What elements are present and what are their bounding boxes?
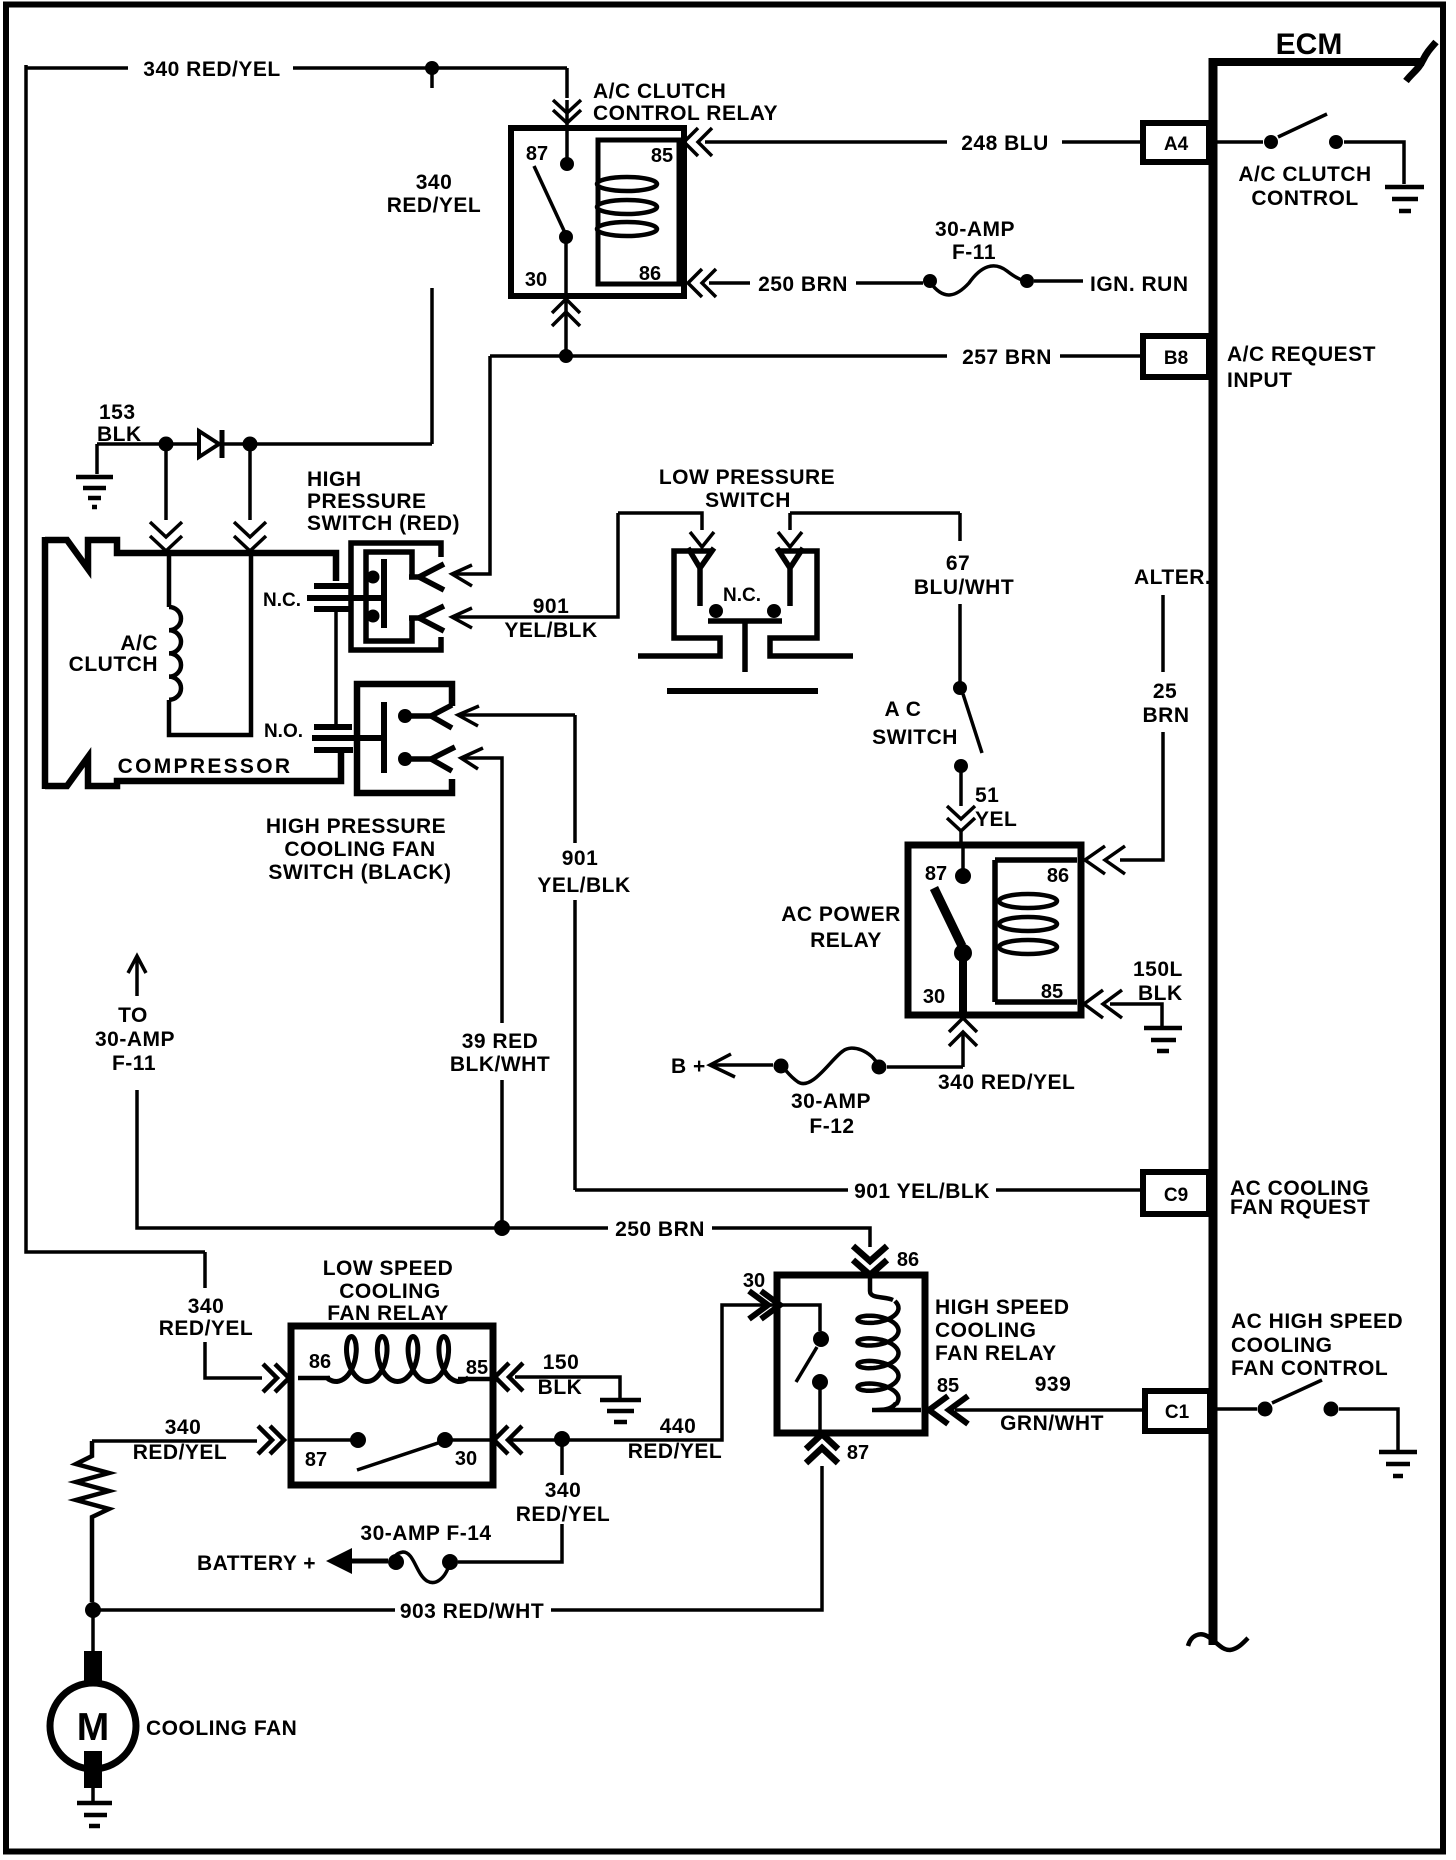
svg-text:BLK: BLK [97, 423, 142, 446]
red switch inner bracket [366, 552, 412, 641]
relay K1 coil loops [597, 177, 657, 236]
svg-text:86: 86 [309, 1351, 331, 1373]
svg-text:COOLING FAN: COOLING FAN [284, 838, 435, 861]
svg-text:901: 901 [562, 847, 599, 870]
svg-text:340: 340 [165, 1416, 202, 1439]
svg-text:ALTER.: ALTER. [1134, 566, 1211, 589]
svg-text:PRESSURE: PRESSURE [307, 490, 427, 513]
A/C clutch coil [169, 553, 251, 735]
chevrons at relay 86 (250 BRN) [688, 269, 716, 297]
svg-text:BLK/WHT: BLK/WHT [450, 1053, 550, 1076]
svg-text:FAN RQUEST: FAN RQUEST [1230, 1196, 1370, 1219]
wire 901 YEL/BLK (to low pressure switch) [452, 513, 618, 617]
chevrons at relay 30 (to 257 BRN) [552, 299, 580, 356]
svg-text:F-12: F-12 [809, 1115, 854, 1138]
wire 67 BLU/WHT [958, 513, 962, 682]
svg-text:C9: C9 [1164, 1185, 1188, 1206]
chevrons below relay K2 pin 30 [949, 1018, 977, 1067]
svg-text:RED/YEL: RED/YEL [628, 1440, 723, 1463]
chevrons into K3 86 [263, 1364, 289, 1392]
svg-text:CONTROL: CONTROL [1251, 187, 1358, 210]
wire 901 YEL/BLK from black switch upper contact [458, 713, 575, 717]
wire 250 BRN (bottom) [137, 1090, 608, 1228]
svg-text:SWITCH: SWITCH [705, 489, 791, 512]
svg-text:LOW PRESSURE: LOW PRESSURE [659, 466, 835, 489]
ground (A/C clutch control) [1385, 187, 1424, 211]
svg-text:COOLING FAN: COOLING FAN [146, 1717, 297, 1740]
svg-text:A C: A C [885, 698, 922, 721]
svg-text:30-AMP F-14: 30-AMP F-14 [360, 1522, 491, 1545]
svg-text:RED/YEL: RED/YEL [516, 1503, 611, 1526]
connector A4 [1143, 123, 1209, 162]
relay K2 coil box [995, 860, 1077, 1002]
svg-text:N.O.: N.O. [264, 721, 303, 742]
connector B8 [1143, 336, 1209, 377]
connector C1 [1145, 1391, 1210, 1431]
svg-text:AC HIGH SPEED: AC HIGH SPEED [1231, 1310, 1403, 1333]
ground (fan control) [1379, 1452, 1417, 1476]
svg-text:30-AMP: 30-AMP [95, 1028, 175, 1051]
wire down to compressor (right) with chevrons [234, 444, 266, 551]
ECM bottom break squiggle [1188, 1634, 1248, 1650]
relay K1 coil box [598, 140, 679, 284]
low pressure switch bottom bar [667, 688, 818, 694]
svg-text:340 RED/YEL: 340 RED/YEL [143, 58, 280, 81]
ground (150L BLK) [1144, 1028, 1182, 1051]
wire 340 RED/YEL into K3 86 [205, 1252, 262, 1378]
svg-text:CONTROL RELAY: CONTROL RELAY [593, 102, 778, 125]
svg-text:BLK: BLK [538, 1376, 583, 1399]
svg-text:N.C.: N.C. [263, 590, 301, 611]
junction 440/340 [554, 1431, 570, 1447]
svg-text:A/C CLUTCH: A/C CLUTCH [1238, 163, 1371, 186]
svg-text:SWITCH (BLACK): SWITCH (BLACK) [268, 861, 451, 884]
ECM top break squiggle [1406, 42, 1436, 81]
arrowhead (upper, black switch) [458, 706, 479, 726]
wire drop to high pressure switch [452, 356, 490, 574]
relay K1 pin 30 wire [564, 237, 568, 296]
relay K4 switch contacts [778, 1305, 829, 1433]
svg-text:HIGH SPEED: HIGH SPEED [935, 1296, 1070, 1319]
svg-text:30: 30 [923, 986, 945, 1008]
svg-text:YEL/BLK: YEL/BLK [504, 619, 597, 642]
wire left vertical 340 RED/YEL [26, 65, 205, 1252]
wire from N.C. lower plate down to black switch [334, 609, 338, 724]
compressor outline [45, 537, 341, 789]
svg-text:86: 86 [897, 1249, 919, 1271]
svg-text:BRN: BRN [1143, 704, 1190, 727]
black switch lower fork contact [405, 747, 455, 771]
high speed cooling fan relay K4 box [777, 1275, 925, 1433]
wire 248 BLU [705, 140, 947, 144]
wire 150L BLK at relay K2 pin 85 [1084, 990, 1162, 1026]
relay K1 switch blade [534, 166, 566, 235]
svg-text:BLK: BLK [1138, 982, 1183, 1005]
relay K2 box [908, 845, 1081, 1015]
wire to IGN. RUN [1034, 279, 1083, 283]
fuse F-12 [774, 1048, 887, 1083]
svg-text:YEL/BLK: YEL/BLK [537, 874, 630, 897]
arrowhead into red switch (lower) [452, 608, 472, 628]
svg-text:25: 25 [1153, 680, 1177, 703]
svg-text:COOLING: COOLING [339, 1280, 441, 1303]
svg-text:INPUT: INPUT [1227, 369, 1293, 392]
svg-text:85: 85 [466, 1357, 488, 1379]
wire 153 BLK horizontal [97, 442, 432, 446]
junction 257 BRN [559, 349, 573, 363]
svg-text:AC POWER: AC POWER [781, 903, 901, 926]
chevrons into K4 86 (bold) [853, 1246, 887, 1275]
svg-text:RED/YEL: RED/YEL [387, 194, 482, 217]
wire 901 YEL/BLK vertical to C9 [573, 715, 577, 1190]
svg-text:30: 30 [743, 1270, 765, 1292]
black switch bracket [357, 684, 452, 793]
wire top right (67 BLU/WHT side) [790, 511, 960, 515]
svg-text:COOLING: COOLING [1231, 1334, 1333, 1357]
chevrons into AC power relay 87 [947, 806, 975, 845]
svg-text:901: 901 [533, 595, 570, 618]
svg-text:85: 85 [1041, 981, 1063, 1003]
low speed cooling fan relay K3 box [291, 1326, 493, 1485]
svg-text:30: 30 [525, 269, 547, 291]
relay K1 box [511, 128, 684, 296]
wire 440 RED/YEL [508, 1305, 778, 1440]
wire 340 RED/YEL mid vertical [430, 68, 434, 444]
arrowhead down (right) [778, 532, 802, 547]
relay K2 switch blade [934, 888, 962, 946]
wire 25 BRN (from alternator) [1120, 595, 1163, 860]
red switch upper fork contact [409, 564, 444, 590]
junction 903 [85, 1602, 101, 1618]
A/C clutch control relay K1 [511, 128, 684, 296]
resistor R1 [76, 1441, 109, 1602]
svg-text:250 BRN: 250 BRN [758, 273, 848, 296]
svg-text:250 BRN: 250 BRN [615, 1218, 705, 1241]
ground (150 BLK) [600, 1400, 641, 1422]
svg-text:248 BLU: 248 BLU [961, 132, 1049, 155]
arrowhead into red switch (upper) [452, 565, 472, 586]
wire down to compressor (left) with chevrons [150, 444, 182, 551]
svg-text:30: 30 [455, 1448, 477, 1470]
wire 901 YEL/BLK horizontal to C9 [575, 1188, 848, 1192]
svg-text:TO: TO [118, 1004, 148, 1027]
svg-text:COMPRESSOR: COMPRESSOR [118, 755, 293, 778]
svg-text:N.C.: N.C. [723, 585, 761, 606]
relay K1 pin 87 wire and contact [565, 128, 569, 160]
low pressure switch left Y contact [688, 548, 714, 606]
red switch contact dots [367, 571, 380, 584]
wire 340 RED/YEL drop to relay 87 [565, 68, 569, 98]
ECM vertical bar [1209, 58, 1218, 1645]
low pressure switch left bracket [638, 551, 720, 656]
svg-text:GRN/WHT: GRN/WHT [1000, 1412, 1104, 1435]
chevrons into K3 87 [258, 1426, 284, 1454]
junction dot left of diode [159, 437, 174, 452]
wire 51 YEL [959, 766, 963, 806]
svg-text:IGN. RUN: IGN. RUN [1090, 273, 1189, 296]
wire top left (901 side) [618, 513, 702, 530]
svg-text:67: 67 [946, 552, 970, 575]
black switch upper fork contact [405, 705, 452, 728]
svg-text:A/C REQUEST: A/C REQUEST [1227, 343, 1376, 366]
chevrons into AC power relay 86 [1085, 846, 1125, 874]
svg-text:903 RED/WHT: 903 RED/WHT [400, 1600, 544, 1623]
svg-text:M: M [77, 1706, 110, 1749]
relay K3 coil (horizontal spring) [298, 1337, 490, 1382]
svg-text:F-11: F-11 [952, 241, 996, 264]
svg-text:C1: C1 [1165, 1402, 1190, 1423]
svg-text:RED/YEL: RED/YEL [159, 1317, 254, 1340]
svg-text:SWITCH: SWITCH [872, 726, 958, 749]
wire to cooling fan motor [91, 1610, 95, 1652]
junction dot right of diode [243, 437, 258, 452]
relay K2 coil loops [999, 894, 1057, 954]
A/C clutch control switch inside ECM [1217, 114, 1404, 184]
svg-text:51: 51 [975, 784, 999, 807]
svg-text:150: 150 [543, 1351, 580, 1374]
wire and solid arrow to BATTERY + [348, 1559, 388, 1564]
svg-text:A4: A4 [1164, 134, 1189, 155]
svg-text:COOLING: COOLING [935, 1319, 1037, 1342]
svg-text:440: 440 [660, 1415, 697, 1438]
svg-text:CLUTCH: CLUTCH [69, 653, 158, 676]
wire 340 RED/YEL down from 440 junction [458, 1439, 562, 1562]
connector C9 [1143, 1172, 1209, 1214]
svg-text:39 RED: 39 RED [462, 1030, 539, 1053]
black switch N.O. plates [312, 702, 384, 773]
low pressure switch contact dots [709, 604, 723, 618]
svg-text:HIGH: HIGH [307, 468, 362, 491]
svg-text:30-AMP: 30-AMP [791, 1090, 871, 1113]
low pressure switch right Y contact [777, 548, 803, 606]
svg-text:BATTERY +: BATTERY + [197, 1552, 316, 1575]
wire 939 GRN/WHT [955, 1408, 1145, 1412]
svg-text:RELAY: RELAY [810, 929, 882, 952]
svg-text:87: 87 [925, 863, 947, 885]
svg-text:257 BRN: 257 BRN [962, 346, 1052, 369]
svg-text:ECM: ECM [1276, 28, 1343, 61]
red switch outer bracket [351, 543, 441, 650]
wire 340 RED/YEL into K3 87 [92, 1439, 257, 1443]
chevron into relay top [553, 100, 581, 128]
wire 39 RED BLK/WHT from black switch lower contact [461, 758, 502, 1228]
low pressure switch right bracket [770, 551, 853, 656]
svg-text:340: 340 [188, 1295, 225, 1318]
chevrons into K4 30 (bold) [749, 1291, 780, 1319]
ground (153 BLK) [76, 444, 113, 507]
svg-text:RED/YEL: RED/YEL [133, 1441, 228, 1464]
relay K4 coil (vertical spring) [858, 1275, 922, 1410]
wire 340 RED/YEL (top horizontal) [26, 66, 128, 70]
svg-text:901 YEL/BLK: 901 YEL/BLK [854, 1180, 990, 1203]
chevrons below K4 87 (bold) [806, 1434, 838, 1463]
svg-text:B8: B8 [1164, 348, 1188, 369]
red switch N.C. plates [307, 559, 384, 628]
wire 250 BRN to fuse [709, 281, 750, 285]
svg-text:340 RED/YEL: 340 RED/YEL [938, 1071, 1075, 1094]
chevrons at relay 85 (248 BLU) [684, 128, 712, 156]
svg-text:SWITCH (RED): SWITCH (RED) [307, 512, 460, 535]
chevrons out of K4 85 (939 GRN/WHT, bold) [929, 1396, 968, 1424]
svg-text:87: 87 [526, 143, 548, 165]
chevrons out of K3 30 (440 RED/YEL) [494, 1426, 522, 1454]
svg-text:939: 939 [1035, 1373, 1072, 1396]
svg-text:153: 153 [99, 401, 136, 424]
svg-text:FAN CONTROL: FAN CONTROL [1231, 1357, 1388, 1380]
arrowhead B+ [710, 1054, 735, 1077]
svg-text:FAN RELAY: FAN RELAY [327, 1302, 449, 1325]
wire 340 RED/YEL from fuse F-12 [887, 1065, 963, 1069]
ECM top bar [1209, 58, 1424, 66]
svg-text:87: 87 [305, 1449, 327, 1471]
svg-text:86: 86 [1047, 865, 1069, 887]
diode CR1 [199, 430, 222, 458]
fuse F-14 [388, 1552, 458, 1582]
junction 250 BRN / 39 RED [494, 1220, 510, 1236]
junction on 340 line [425, 61, 439, 75]
black switch contact dots [398, 709, 412, 723]
svg-text:YEL: YEL [975, 808, 1017, 831]
svg-text:150L: 150L [1133, 958, 1183, 981]
svg-text:BLU/WHT: BLU/WHT [914, 576, 1014, 599]
red switch lower fork contact [409, 606, 444, 631]
svg-text:340: 340 [545, 1479, 582, 1502]
relay K2 pin 87 contact [961, 845, 965, 870]
svg-text:LOW SPEED: LOW SPEED [323, 1257, 454, 1280]
wire 257 BRN [490, 354, 947, 358]
wire to B+ [710, 1063, 773, 1067]
svg-text:A/C: A/C [120, 632, 158, 655]
cooling fan motor M1 [50, 1651, 136, 1788]
svg-text:30-AMP: 30-AMP [935, 218, 1015, 241]
svg-text:FAN RELAY: FAN RELAY [935, 1342, 1057, 1365]
wire 903 RED/WHT [93, 1608, 395, 1612]
svg-text:85: 85 [651, 145, 673, 167]
relay K2 pin 30 wire [959, 953, 967, 1015]
svg-text:340: 340 [416, 171, 453, 194]
low pressure switch movable bar and stem [708, 621, 782, 672]
arrowhead (lower, black switch) [461, 748, 483, 769]
svg-text:86: 86 [639, 263, 661, 285]
ground (cooling fan) [77, 1788, 112, 1826]
AC high speed fan control switch inside ECM [1217, 1380, 1398, 1450]
relay K3 switch contacts [294, 1432, 490, 1470]
wire 150 BLK from K3 85 [495, 1363, 523, 1391]
A/C switch S1 [953, 681, 982, 773]
svg-text:HIGH PRESSURE: HIGH PRESSURE [266, 815, 446, 838]
svg-text:F-11: F-11 [112, 1052, 156, 1075]
fuse F-11 [923, 266, 1034, 295]
svg-text:B +: B + [671, 1055, 706, 1078]
svg-text:85: 85 [937, 1375, 959, 1397]
arrowhead down (left) [690, 532, 714, 547]
arrow TO 30-AMP F-11 [128, 956, 146, 996]
svg-text:87: 87 [847, 1442, 869, 1464]
svg-text:A/C CLUTCH: A/C CLUTCH [593, 80, 726, 103]
